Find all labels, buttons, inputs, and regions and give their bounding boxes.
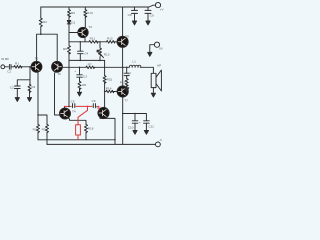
junction at 87.5,106.4	[87, 106, 89, 108]
capacitor C10	[132, 121, 138, 123]
svg-text:C5: C5	[71, 99, 75, 103]
wire C10 C11 feed	[123, 114, 147, 131]
svg-text:C7: C7	[127, 72, 131, 76]
resistor R6	[78, 81, 81, 89]
wire bottom rails	[38, 139, 115, 141]
resistor R15	[103, 76, 106, 84]
wire R9 D1 chain from rail	[69, 7, 78, 42]
junction at 69,106.4	[68, 106, 70, 108]
resistor R7	[86, 66, 95, 69]
junction at 38,115	[37, 114, 39, 116]
svg-text:R14: R14	[106, 86, 112, 90]
resistor R4	[28, 84, 31, 92]
wire x69 drop to C5	[68, 60, 70, 106]
svg-text:C6: C6	[92, 99, 96, 103]
svg-text:R2: R2	[43, 20, 47, 24]
ground under 0V	[148, 52, 152, 56]
capacitor C11	[144, 121, 150, 123]
resistor R14	[105, 90, 118, 93]
speaker AP	[151, 73, 156, 87]
wire top rail	[41, 5, 156, 7]
svg-text:R11: R11	[90, 37, 96, 41]
wire R10 collector T3	[84, 7, 86, 28]
svg-text:T4: T4	[72, 109, 76, 113]
ground under speaker	[151, 93, 155, 97]
svg-text:R4: R4	[31, 85, 35, 89]
svg-text:C2: C2	[10, 85, 14, 89]
resistor R8	[68, 42, 71, 61]
junction at 100,41.8	[99, 41, 101, 43]
ground under C11	[144, 131, 148, 135]
junction at 100,60.4	[99, 60, 101, 62]
svg-text:R1: R1	[15, 62, 19, 66]
capacitor C3	[77, 75, 83, 77]
capacitor C4	[78, 51, 84, 54]
resistor R10	[84, 10, 87, 18]
capacitor C8	[132, 7, 138, 21]
transistor T5	[117, 36, 128, 47]
resistor R16	[85, 124, 88, 132]
svg-text:C10: C10	[128, 126, 134, 130]
svg-text:R5: R5	[42, 127, 46, 131]
ground under R6	[77, 92, 81, 96]
wire bias bottom y60.4	[69, 59, 105, 61]
junction at 135,113.5	[134, 113, 136, 115]
svg-text:C11: C11	[148, 124, 154, 128]
inductor L1	[129, 65, 141, 67]
svg-text:AP: AP	[157, 63, 161, 67]
junction at 40.8,34.2	[40, 33, 42, 35]
transistor T7	[117, 86, 128, 97]
svg-text:+: +	[139, 120, 141, 124]
svg-text:C8: C8	[128, 13, 132, 17]
wire R2 drop from rail	[40, 7, 42, 34]
wire T6 emitter box path	[100, 118, 115, 145]
wire T5 emitter	[122, 47, 124, 67]
junction at 115,139.8	[114, 139, 116, 141]
junction at 30,66.8	[29, 66, 31, 68]
svg-text:T7: T7	[124, 98, 128, 102]
wire T1 emitter	[37, 72, 39, 140]
svg-text:R3: R3	[33, 127, 37, 131]
svg-text:IN BF: IN BF	[1, 57, 9, 61]
junction at 79.5,67.3	[79, 67, 81, 69]
wire T4 collector stub	[64, 106, 66, 108]
terminal 0V mid right	[154, 42, 159, 47]
junction at 104.6,91.5	[104, 91, 106, 93]
wire red drop to resistor	[78, 106, 88, 124]
resistor R2	[39, 18, 42, 27]
junction dots	[29, 33, 136, 140]
svg-text:T1: T1	[35, 57, 39, 61]
junction at 122.7,113.5	[122, 113, 124, 115]
wire T7 emitter to bottom rail	[122, 97, 124, 145]
wire T5 collector	[122, 7, 124, 37]
red net	[65, 106, 99, 139]
svg-text:R13: R13	[104, 52, 110, 56]
wire collector bar T1 T2	[37, 34, 58, 62]
wire Zobel drop	[126, 67, 128, 87]
capacitor C5	[73, 104, 75, 108]
resistor R5	[46, 124, 49, 132]
wire output line y67.3	[62, 67, 153, 73]
wire input	[5, 67, 32, 98]
svg-text:C4: C4	[84, 51, 88, 55]
wire red C6 right to T6 base	[97, 106, 99, 110]
trimmer R13	[99, 42, 101, 61]
svg-text:R15: R15	[107, 78, 113, 82]
wire bias node y41.8	[69, 42, 118, 61]
wire T3 emitter	[84, 37, 86, 42]
ground under R17	[125, 88, 129, 92]
svg-text:R17: R17	[120, 80, 126, 84]
svg-text:T6: T6	[95, 105, 99, 109]
capacitor C1	[9, 65, 11, 70]
capacitor C7	[124, 73, 129, 75]
ground under C10	[133, 131, 137, 135]
svg-text:R9: R9	[71, 11, 75, 15]
svg-text:+: +	[74, 69, 76, 73]
svg-text:D1: D1	[71, 20, 75, 24]
wire bias drop to output stage	[104, 60, 106, 107]
wire T7 collector	[122, 67, 124, 86]
resistor R1	[14, 66, 22, 69]
resistor R17	[125, 79, 128, 87]
svg-text:C3: C3	[83, 75, 87, 79]
svg-text:R7: R7	[88, 62, 92, 66]
terminal bottom right	[156, 142, 161, 147]
junction at 80.3,41.8	[80, 41, 82, 43]
resistor R9	[68, 10, 71, 18]
ground under C8	[132, 21, 136, 25]
transistor T1	[31, 61, 42, 72]
ground under R4	[27, 98, 31, 102]
svg-text:T2: T2	[57, 72, 61, 76]
diode D1	[67, 21, 71, 24]
capacitor C2	[15, 86, 21, 89]
junction at 80.3,60.4	[80, 60, 82, 62]
svg-text:R16: R16	[88, 126, 94, 130]
wire red to rail	[77, 135, 79, 140]
transistor T6	[98, 107, 109, 118]
junction at 122.6,67.3	[122, 67, 124, 69]
svg-text:R10: R10	[87, 11, 93, 15]
resistor R11	[89, 41, 98, 44]
wire T4 emitter to R16	[68, 118, 86, 140]
capacitor C9	[145, 7, 151, 21]
wire red C5-C6	[76, 105, 92, 107]
terminal +V top right	[155, 3, 160, 8]
ground under C9	[146, 21, 150, 25]
svg-text:R12: R12	[107, 37, 113, 41]
wire C3 R6 drop	[79, 67, 81, 92]
wire jog to R5	[38, 115, 47, 144]
svg-text:C1: C1	[7, 69, 11, 73]
ground under C2	[15, 98, 19, 102]
resistor R12	[107, 41, 116, 44]
resistor R3	[37, 124, 40, 132]
capacitor C6	[93, 104, 95, 108]
junction at 126.7,67.3	[126, 67, 128, 69]
transistor T2	[52, 61, 63, 72]
wire T2 emitter to T4 base	[55, 71, 61, 115]
wire 0V to ground	[150, 45, 155, 53]
svg-text:R6: R6	[82, 83, 86, 87]
svg-text:T5: T5	[125, 35, 129, 39]
svg-text:C9: C9	[150, 13, 154, 17]
svg-text:R8: R8	[63, 47, 67, 51]
svg-text:L1: L1	[132, 59, 136, 63]
terminal input	[1, 65, 5, 69]
resistor red	[76, 125, 81, 135]
transistor T4	[60, 108, 71, 119]
transistor T3	[78, 27, 88, 37]
svg-text:T3: T3	[88, 25, 92, 29]
wire red C5 left	[65, 105, 72, 107]
